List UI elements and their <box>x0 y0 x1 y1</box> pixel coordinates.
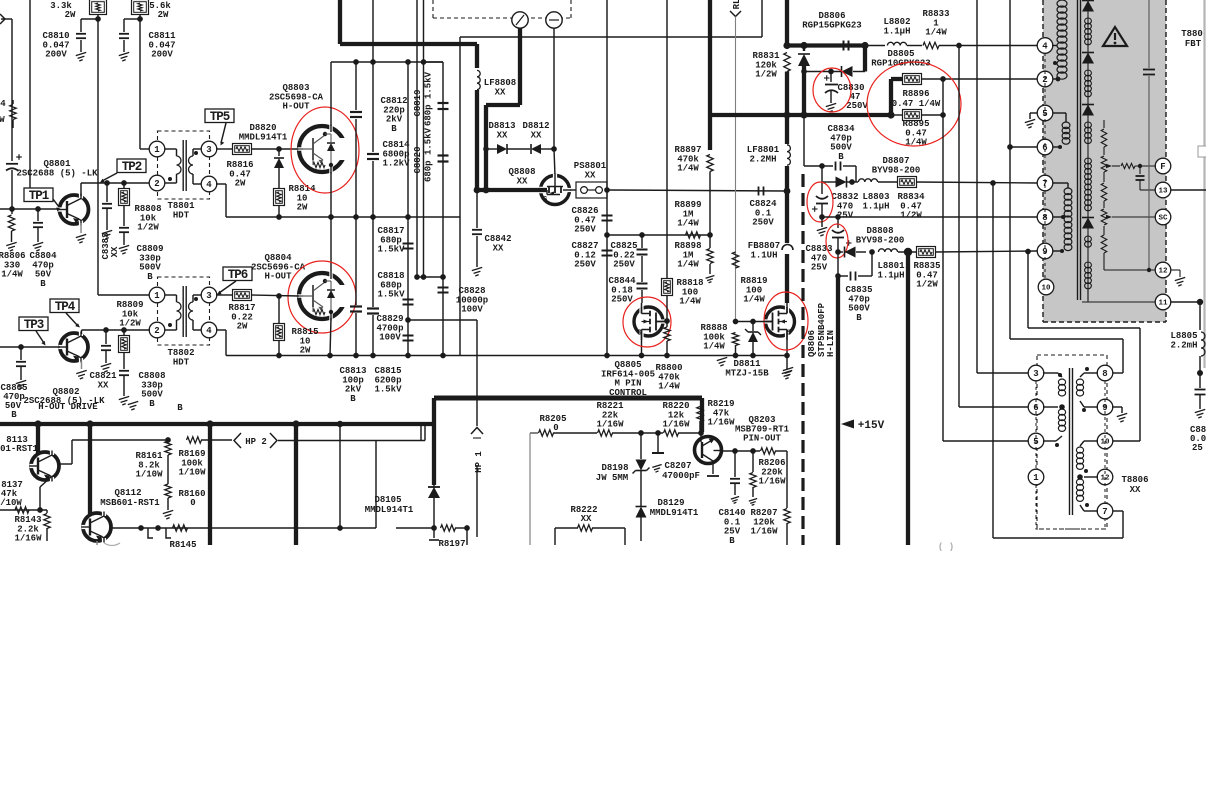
test point TP4 <box>50 299 80 328</box>
FBT winding pins 5-6 <box>1053 113 1070 149</box>
svg-text:TP1: TP1 <box>29 189 49 203</box>
svg-text:1/2W: 1/2W <box>119 319 141 329</box>
junction y183 x107 <box>104 180 110 186</box>
junction y355 x408 <box>405 353 411 359</box>
diode D8806 RGP15GPKG23 <box>798 11 862 115</box>
svg-text:2.2MH: 2.2MH <box>749 154 776 164</box>
FBT pin 9 <box>1037 243 1053 259</box>
wire y321 gate row <box>736 321 773 323</box>
svg-text:XX: XX <box>1130 485 1141 495</box>
svg-text:B: B <box>177 403 183 413</box>
FBT bleeder resistor chain <box>1101 120 1156 270</box>
resistor R8800 470k 1/4W <box>655 321 682 392</box>
svg-text:Q8806: Q8806 <box>807 330 817 357</box>
junction y191 x787 <box>784 188 791 195</box>
svg-text:1.1UH: 1.1UH <box>750 250 777 260</box>
resistor R8221 22k 1/16W <box>596 401 663 436</box>
ground at FBT pin5 <box>1025 113 1037 128</box>
FBT dashed pin column <box>1044 53 1046 280</box>
junction y183 x124 <box>121 180 127 186</box>
red highlight ellipse C8830 <box>813 68 851 112</box>
transformer T8801 HDT <box>158 131 210 220</box>
ground near MTZJ label <box>783 367 793 370</box>
junction y355 x373 <box>370 353 376 359</box>
capacitor C8868 at right edge <box>1190 373 1206 453</box>
svg-text:250V: 250V <box>752 218 774 228</box>
junction y217 x279 <box>276 214 282 220</box>
junction y424 x296 <box>292 420 299 427</box>
junction y330 x106 <box>103 327 109 333</box>
label Q8806 STP5NB40FP H-LIN rotated <box>807 302 836 357</box>
junction y528 x141 <box>138 525 144 531</box>
svg-text:100V: 100V <box>379 333 401 343</box>
wire x340 bus to y528 <box>339 424 341 528</box>
svg-text:1.5kV: 1.5kV <box>374 385 402 395</box>
svg-text:TP4: TP4 <box>55 300 76 314</box>
svg-text:1/16W: 1/16W <box>758 477 786 487</box>
junction y235 x642 <box>639 232 645 238</box>
resistor R8835 0.47 1/2W boxed <box>913 247 940 290</box>
T8806 pin 10 <box>1097 433 1113 449</box>
capacitor C8805 470p 50V <box>16 347 26 389</box>
label C8805 tail and H-OUT DRIVE <box>0 383 183 420</box>
svg-text:TP5: TP5 <box>210 110 230 124</box>
inductor L8803 1.1uH <box>858 179 898 212</box>
resistor R8896 0.47 1/4W boxed <box>892 74 941 110</box>
svg-text:4: 4 <box>1042 42 1048 52</box>
svg-text:680p 1.5kV: 680p 1.5kV <box>424 71 434 126</box>
svg-text:C8820: C8820 <box>413 146 423 173</box>
capacitor C8824 0.1 250V <box>749 187 777 228</box>
wire column x374 top <box>372 0 374 62</box>
thick wire x210 down <box>208 424 212 545</box>
svg-text:3: 3 <box>1033 369 1038 379</box>
junction y424 x210 <box>206 420 213 427</box>
wire Q8203 emitter row <box>721 450 760 452</box>
resistor R8899 1M 1/4W <box>674 200 701 238</box>
svg-text:2W: 2W <box>65 10 76 20</box>
resistor R8818 100 1/4W boxed <box>662 278 704 321</box>
resistor R8161 8.2k 1/10W <box>135 441 171 484</box>
transistor Q8113 MSB601-RST1 <box>0 424 59 482</box>
junction x1010 y147 <box>1007 144 1013 150</box>
junction y355 x279 <box>276 353 282 359</box>
svg-text:13: 13 <box>1158 188 1168 196</box>
svg-text:H-OUT: H-OUT <box>282 102 310 112</box>
junction y252 x908 thick <box>904 248 912 256</box>
junction y79 x943 <box>940 76 946 82</box>
FBT pin 10 <box>1038 279 1054 295</box>
junction x98 y19 <box>95 16 101 22</box>
Q8801 emitter ground <box>76 223 86 243</box>
label T8806 XX <box>1121 475 1148 495</box>
dashed link T8806 pin1 down <box>1036 485 1105 516</box>
junction y45 x787 <box>783 42 790 49</box>
svg-text:XX: XX <box>493 243 504 253</box>
resistor R8806 330 1/4W <box>0 209 26 280</box>
resistor R8169 100k 1/10W <box>178 437 232 478</box>
dashed link T8806 pins left column <box>1035 381 1037 470</box>
wire R8833 to pin4 <box>939 45 1037 47</box>
wire y166 row with capacitor <box>804 162 856 183</box>
FBT primary winding <box>1052 0 1067 81</box>
resistor R8160 0 <box>163 484 206 519</box>
junction y115 x891 <box>887 111 894 118</box>
ferrite bead FB8807 1.1UH <box>748 191 793 307</box>
diode D8808 BYV98-200 <box>838 226 904 257</box>
junction y320 x408 <box>405 317 411 323</box>
wire R8896 to pin2 <box>921 78 1037 80</box>
svg-text:1/10W: 1/10W <box>135 470 163 480</box>
svg-text:+15V: +15V <box>858 420 885 432</box>
resistor R8219 47k 1/16W <box>697 399 735 433</box>
svg-text:D8129: D8129 <box>657 498 684 508</box>
label +15V with arrow <box>841 420 885 433</box>
resistor R8145 <box>169 525 196 550</box>
FBT core <box>1078 0 1081 300</box>
junction y252 x872 <box>869 249 875 255</box>
wire y217 to pin8 <box>822 216 1037 218</box>
T8801 pin 2 <box>149 175 165 191</box>
svg-text:1.1μH: 1.1μH <box>877 270 904 280</box>
junction y424 x90 <box>86 420 93 427</box>
T8802 pin 4 <box>201 322 217 338</box>
wire column x607 <box>606 0 608 356</box>
junction y71 x831 <box>828 69 834 75</box>
svg-text:B: B <box>11 410 17 420</box>
junction y528 x434 <box>431 525 437 531</box>
ground below C8832 <box>817 217 827 236</box>
svg-text:R8145: R8145 <box>169 540 196 550</box>
resistor R8816 0.47 2W boxed <box>226 144 253 189</box>
junction y149 x279 <box>276 146 282 152</box>
zener D8811 MTZJ-15B <box>725 322 769 379</box>
resistor R8808 10k 1/2W boxed <box>119 183 162 233</box>
svg-text:10: 10 <box>1041 285 1051 293</box>
capacitor C8809 330p 500V <box>119 228 164 282</box>
wire y235 row <box>607 234 710 236</box>
wire pin 11 to L8805 <box>1171 299 1203 330</box>
junction y183 x993 <box>990 180 996 186</box>
FBT pin SC <box>1155 209 1171 225</box>
svg-text:1/10W: 1/10W <box>178 468 206 478</box>
junction y355 x787 <box>784 353 790 359</box>
junction y355 x753 <box>750 353 756 359</box>
svg-text:1/4W: 1/4W <box>658 382 680 392</box>
svg-text:B: B <box>40 279 46 289</box>
svg-text:2W: 2W <box>300 346 311 356</box>
svg-text:B: B <box>838 152 844 162</box>
junction y217 x331 <box>328 214 334 220</box>
connector HP1 <box>471 428 484 538</box>
capacitor C8818 680p 1.5kV <box>377 271 413 304</box>
svg-text:0: 0 <box>553 423 558 433</box>
wire PS8801 output y190 <box>607 190 787 191</box>
test point TP3 <box>19 317 48 346</box>
wire x331 bus to Q8804 collector <box>330 217 332 274</box>
svg-text:W: W <box>0 115 5 125</box>
connector diamond left edge <box>0 14 5 24</box>
junction y209 x38 <box>35 206 41 212</box>
svg-text:F: F <box>1160 162 1165 172</box>
junction y330 x124 <box>121 327 127 333</box>
capacitor C8831 in y45 row <box>843 41 845 51</box>
junction y115 x804 <box>800 111 807 118</box>
svg-text:11: 11 <box>1158 300 1168 308</box>
svg-text:RGP15GPKG23: RGP15GPKG23 <box>802 20 861 30</box>
capacitor C8812 220p 2kV <box>350 62 408 217</box>
inductor L8802 1.1uH <box>883 17 910 45</box>
resistor R8819 100 1/4W <box>732 252 767 305</box>
test point TP6 <box>217 267 252 295</box>
test point TP1 <box>24 188 61 212</box>
svg-text:1/4W: 1/4W <box>677 219 699 229</box>
svg-text:8: 8 <box>1102 369 1107 379</box>
svg-text:2SC2688 (5) -LK: 2SC2688 (5) -LK <box>16 168 98 178</box>
zener D8198 JW 5MM <box>596 433 650 500</box>
svg-text:/10W: /10W <box>0 498 22 508</box>
svg-text:7: 7 <box>1102 507 1107 517</box>
capacitor C8817 680p 1.5kV <box>377 226 413 254</box>
red highlight ellipse Q8805 <box>623 297 671 347</box>
svg-text:0.47 1/4W: 0.47 1/4W <box>892 99 941 109</box>
svg-text:2W: 2W <box>297 203 308 213</box>
svg-text:4: 4 <box>206 326 212 336</box>
junction y166 x822 <box>819 163 825 169</box>
wire y45 thin to FBT pin4 <box>865 45 885 47</box>
Q8802 collector wire to T8802 pin2 <box>82 330 151 334</box>
svg-text:47000pF: 47000pF <box>662 471 700 481</box>
dash-dot boundary x803 <box>801 174 804 545</box>
thick wire y45 D8806 row <box>787 43 865 47</box>
connector RL arrow <box>730 0 742 322</box>
junction y528 x340 <box>337 525 343 531</box>
MOSFET Q8808 XX <box>508 167 571 204</box>
svg-text:250V: 250V <box>613 260 635 270</box>
thick elbow y44 from x340 <box>340 0 477 44</box>
red highlight ellipse Q8812 <box>764 292 808 350</box>
svg-text:XX: XX <box>517 176 528 186</box>
junction y424 x38 <box>34 420 41 427</box>
junction x140 y19 <box>137 16 143 22</box>
T8801 pin 3 <box>201 141 217 157</box>
svg-text:B: B <box>149 399 155 409</box>
Q8113 emitter wire <box>40 477 51 510</box>
wire from diamond to x12 <box>1 19 12 161</box>
diode D8807 BYV98-200 <box>822 156 920 187</box>
svg-text:1/2W: 1/2W <box>900 211 922 221</box>
diode D8129 MMDL914T1 <box>636 498 699 541</box>
wire x467 down <box>466 528 468 545</box>
resistor R8833 1 1/4W <box>922 9 949 49</box>
transistor Q8203 MSB709-RT1 PIN-OUT <box>695 415 790 476</box>
wire y62 row <box>424 61 443 63</box>
Q8803 emitter wire to bus <box>330 172 332 217</box>
resistor R8895 0.47 1/4W boxed <box>892 110 930 148</box>
FBT wire to pin 12 <box>1104 268 1155 272</box>
FBT pin 2 <box>1037 71 1053 87</box>
svg-text:1/4W: 1/4W <box>677 260 699 270</box>
svg-text:3: 3 <box>206 291 211 301</box>
MOSFET Q8805 IRF614-005 M PIN CONTROL <box>601 303 665 398</box>
junction y355 x667 <box>664 353 670 359</box>
junction y252 x838 <box>835 249 841 255</box>
resistor R8220 12k 1/16W <box>662 401 701 436</box>
thick wire x787 R8831 to bus y115 <box>785 72 789 116</box>
resistor R8207 120k 1/16W <box>749 451 778 537</box>
FBT warning triangle <box>1103 27 1127 46</box>
svg-text:R8896: R8896 <box>902 89 929 99</box>
wire x98 vertical to T8802 pin1 <box>98 14 150 295</box>
junction y440 x168 <box>165 437 171 443</box>
capacitor C8383 XX <box>101 183 120 260</box>
svg-text:MTZJ-15B: MTZJ-15B <box>725 368 769 378</box>
wire x943 pin2 row to T8806 pin5 <box>943 79 1029 441</box>
capacitor C8207 47000pF <box>652 433 700 481</box>
inductor LF8801 2.2MH <box>747 115 791 191</box>
junction y190 x607 <box>604 187 610 193</box>
wire y528 D8105 row <box>396 527 434 529</box>
transistor Q8112 MSB601-RST1 <box>82 424 161 545</box>
transformer T8806 XX dashed box <box>1037 355 1107 529</box>
junction y235 x710 <box>707 232 713 238</box>
svg-text:B: B <box>350 394 356 404</box>
wire T8802 pin3 to R8817 <box>216 294 232 296</box>
junction y355 x443 <box>440 353 446 359</box>
junction y149 x486 <box>483 146 489 152</box>
FBT secondary diode chain <box>1082 0 1094 300</box>
T8806 right windings <box>1076 367 1098 511</box>
svg-text:1.2kV: 1.2kV <box>382 159 410 169</box>
dashed link T8806 right column <box>1104 381 1106 504</box>
connector box dashed top <box>433 0 571 18</box>
red highlight ellipse C8833 <box>826 224 848 258</box>
FBT pin 4 <box>1037 38 1053 54</box>
protector PS8801 XX <box>574 161 607 198</box>
wire Q8808 source to PS8801 <box>570 189 576 191</box>
svg-text:TP2: TP2 <box>122 160 142 174</box>
svg-text:1: 1 <box>154 291 160 301</box>
thick wire column x710 <box>708 0 712 150</box>
wire x376 y528 up <box>375 441 377 529</box>
svg-text:B: B <box>856 313 862 323</box>
junction y235 x607 <box>604 232 610 238</box>
svg-text:0: 0 <box>190 498 195 508</box>
junction y424 x340 <box>337 421 343 427</box>
wire column x408 <box>407 62 409 356</box>
resistor R8814 10 2W boxed <box>274 184 317 217</box>
wire y510 row <box>0 509 47 511</box>
T8806 pin 6 <box>1028 399 1044 415</box>
capacitor C8821 XX <box>89 330 117 390</box>
svg-text:1: 1 <box>1033 473 1039 483</box>
junction y296 x279 <box>276 293 282 299</box>
capacitor C8825 0.22 250V <box>610 235 647 270</box>
capacitor C8834 470p 500V <box>827 124 855 162</box>
T8806 pin 5 <box>1028 433 1044 449</box>
junction y62 x373 <box>370 59 376 65</box>
svg-text:1/16W: 1/16W <box>707 418 735 428</box>
transistor Q8803 2SC5698-CA H-OUT <box>269 83 349 173</box>
junction y355 x641 <box>639 353 645 359</box>
svg-text:TP6: TP6 <box>228 268 248 282</box>
junction y355 x356 <box>353 353 359 359</box>
svg-text:H-OUT DRIVE: H-OUT DRIVE <box>38 402 98 412</box>
thick wire y190 into Q8808 <box>477 188 540 192</box>
junction y217 x838 <box>835 214 841 220</box>
svg-text:25: 25 <box>1192 443 1203 453</box>
wire R8205 row y433 <box>530 433 538 545</box>
inductor LF8808 XX <box>477 44 516 190</box>
FBT pin 5 <box>1037 105 1053 121</box>
svg-text:1/4W: 1/4W <box>743 295 765 305</box>
FBT winding pins 7-9 <box>1053 183 1072 253</box>
red highlight ellipse Q8804 <box>288 261 356 333</box>
junction y217 x373 <box>370 214 376 220</box>
svg-text:H-LIN: H-LIN <box>826 330 836 357</box>
svg-text:4: 4 <box>206 180 212 190</box>
junction y115 x943 <box>940 112 946 118</box>
capacitor C8140 0.1 25V <box>718 451 745 546</box>
wire y37 to corner x762 <box>607 0 762 37</box>
FBT pin F <box>1155 158 1171 174</box>
svg-text:1/2W: 1/2W <box>916 280 938 290</box>
wire x1028 pin9 row to T8806 pin10 <box>1028 252 1140 442</box>
svg-text:1.1μH: 1.1μH <box>862 201 889 211</box>
wire x804 bus to y166 <box>803 115 805 166</box>
resistor R8834 0.47 1/2W boxed <box>897 177 925 221</box>
svg-text:1/4W: 1/4W <box>703 342 725 352</box>
resistor left edge y510 <box>15 507 29 513</box>
junction y433 x641 <box>638 430 644 436</box>
FBT focus wire to F <box>1121 163 1156 190</box>
resistor R8888 100k 1/4W <box>700 323 738 355</box>
T8802 pin 1 <box>149 287 165 303</box>
bus y217 <box>255 216 460 218</box>
resistor partial left edge <box>0 99 16 128</box>
red highlight ellipse R8896 R8895 <box>867 62 961 146</box>
wire T8801 pin3 to R8816 <box>216 148 232 150</box>
wire Q8802 base row y347 <box>0 346 60 348</box>
T8806 pin 7 <box>1097 503 1113 519</box>
junction y451 x753 <box>750 448 756 454</box>
svg-text:MMDL914T1: MMDL914T1 <box>650 508 699 518</box>
junction y276 x838 <box>835 273 841 279</box>
junction y62 x356 <box>353 59 359 65</box>
inductor L8801 1.1uH <box>877 249 916 281</box>
jack J2 circle <box>546 12 562 28</box>
svg-text:2.2mH: 2.2mH <box>1170 340 1197 350</box>
hook stubs y528 <box>148 528 171 538</box>
svg-text:XX: XX <box>110 246 120 257</box>
T8802 pin 3 <box>201 287 217 303</box>
svg-text:12: 12 <box>1158 268 1168 276</box>
ground at bus y355 x722 <box>717 357 727 366</box>
junction y510 x40 <box>37 507 43 513</box>
svg-text:JW 5MM: JW 5MM <box>596 473 628 483</box>
junction y347 x21 <box>18 344 24 350</box>
resistor R8197 <box>429 525 467 549</box>
svg-text:XX: XX <box>497 130 508 140</box>
inductor L8805 2.2mH <box>1170 331 1205 371</box>
resistor R8143 2.2k 1/16W <box>14 510 50 544</box>
Q8803 collector wire from y62 <box>331 62 443 126</box>
diode D8812 XX <box>522 121 554 154</box>
junction y149 x554 <box>551 146 557 152</box>
T8802 pin 2 <box>149 322 165 338</box>
junction y433 x701 <box>698 430 704 436</box>
capacitor C8814 6800p 1.2kV <box>367 62 410 217</box>
